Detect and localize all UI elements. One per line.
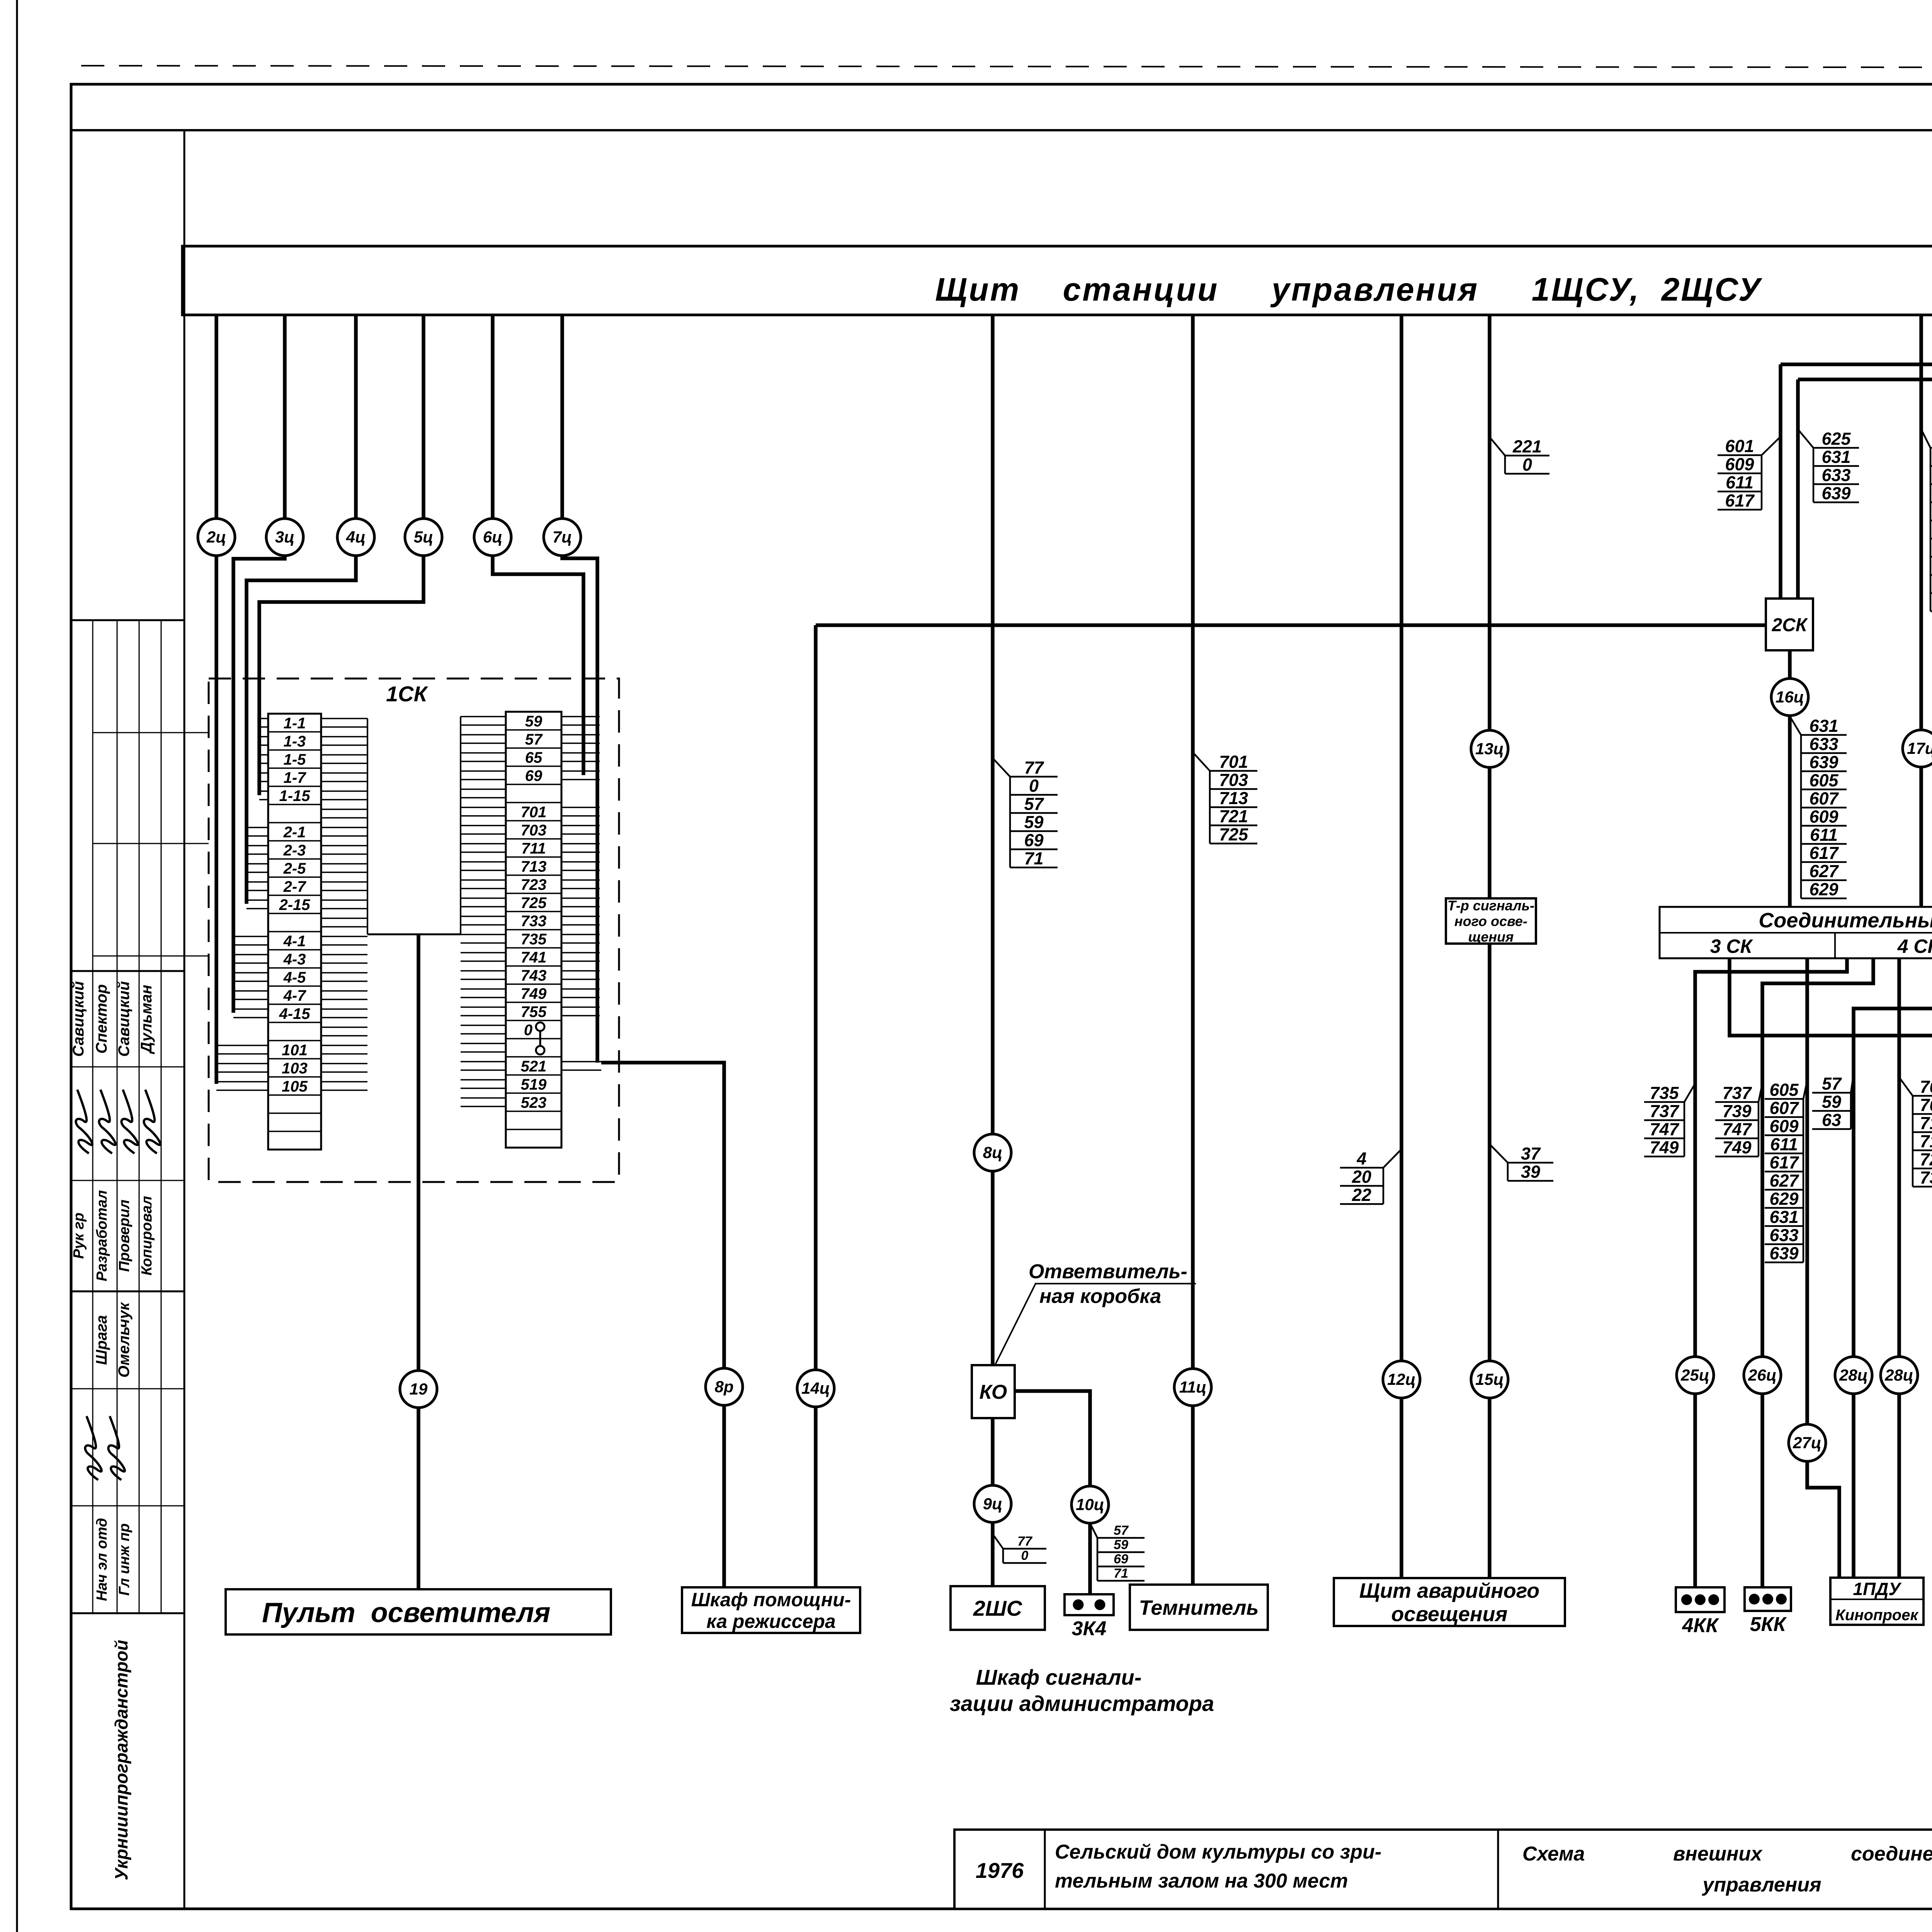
- cable circle 14ц: [797, 1370, 834, 1407]
- svg-text:1-3: 1-3: [284, 733, 306, 750]
- wire 28ц second: [1897, 958, 1901, 1578]
- svg-text:4КК: 4КК: [1682, 1614, 1719, 1637]
- svg-text:Шкаф сигнали-: Шкаф сигнали-: [976, 1665, 1142, 1689]
- cable circle 10ц: [1071, 1486, 1109, 1523]
- stamp column divider v3: [139, 620, 140, 1613]
- svg-text:105: 105: [282, 1078, 308, 1095]
- svg-text:1-15: 1-15: [279, 787, 310, 804]
- svg-text:Савицкий: Савицкий: [70, 981, 87, 1057]
- stamp signature 4: [144, 1090, 160, 1153]
- svg-text:77: 77: [1017, 1534, 1033, 1549]
- svg-text:59: 59: [1114, 1537, 1128, 1552]
- svg-text:735: 735: [1650, 1083, 1679, 1103]
- svg-text:713: 713: [1920, 1113, 1932, 1133]
- svg-text:4-3: 4-3: [283, 951, 306, 968]
- svg-text:749: 749: [521, 985, 547, 1002]
- svg-text:617: 617: [1769, 1153, 1799, 1172]
- svg-text:Спектор: Спектор: [93, 984, 110, 1054]
- wire 14ц: [814, 625, 818, 1587]
- svg-text:731: 731: [1920, 1168, 1932, 1187]
- box 1ПДУ кинопроекционная: [1830, 1578, 1923, 1625]
- left strip terminal plates: [216, 719, 268, 1090]
- stamp row rule b: [93, 843, 209, 844]
- cable circle 12ц: [1383, 1361, 1420, 1398]
- svg-text:617: 617: [1809, 843, 1839, 863]
- sheet top edge (dashed scan line): [81, 66, 1932, 68]
- svg-text:609: 609: [1769, 1116, 1798, 1136]
- svg-text:26ц: 26ц: [1748, 1366, 1777, 1384]
- svg-text:739: 739: [1722, 1101, 1751, 1121]
- wire list at 17ц: [1921, 429, 1932, 612]
- svg-text:8ц: 8ц: [983, 1143, 1003, 1162]
- svg-text:13ц: 13ц: [1475, 740, 1504, 758]
- svg-text:711: 711: [521, 840, 546, 857]
- wire 4ц: [247, 315, 356, 904]
- svg-text:737: 737: [1650, 1101, 1679, 1121]
- svg-text:725: 725: [1219, 825, 1248, 844]
- terminal strip 1СК right: [506, 712, 561, 1148]
- box Т-р сигнального освещения: [1446, 898, 1536, 945]
- stamp signature 1: [76, 1090, 92, 1153]
- wire list at 9ц: [993, 1534, 1046, 1563]
- svg-text:721: 721: [1219, 806, 1248, 826]
- svg-text:14ц: 14ц: [801, 1379, 830, 1397]
- svg-text:607: 607: [1769, 1098, 1799, 1118]
- svg-text:705: 705: [1920, 1095, 1932, 1115]
- cable circle 27ц: [1789, 1424, 1826, 1461]
- stamp column divider v1: [92, 620, 94, 1613]
- svg-text:65: 65: [525, 749, 543, 766]
- svg-text:741: 741: [521, 949, 547, 966]
- cable circle 16ц: [1771, 679, 1808, 716]
- svg-text:2-7: 2-7: [283, 878, 307, 895]
- svg-text:Щит станции управления: Щит станции управления 1ЩСУ, 2ЩСУ: [935, 271, 1763, 308]
- svg-text:639: 639: [1809, 752, 1838, 772]
- wire list at 10ц: [1090, 1523, 1145, 1581]
- wire 6ц: [493, 315, 583, 775]
- svg-text:управления: управления: [1701, 1874, 1821, 1896]
- svg-text:тельным залом на 300 мест: тельным залом на 300 мест: [1055, 1870, 1348, 1892]
- svg-text:737: 737: [1722, 1083, 1752, 1103]
- svg-text:Т-р сигналь-: Т-р сигналь-: [1447, 898, 1534, 913]
- svg-text:703: 703: [521, 822, 547, 839]
- wire list at 12ц: [1340, 1149, 1401, 1205]
- wire to lighting console: [417, 934, 420, 1589]
- svg-text:71: 71: [1024, 849, 1043, 868]
- svg-text:4-5: 4-5: [283, 969, 306, 986]
- svg-text:631: 631: [1821, 447, 1850, 467]
- svg-text:103: 103: [282, 1060, 308, 1077]
- svg-text:11ц: 11ц: [1179, 1378, 1207, 1396]
- wire 13ц: [1488, 315, 1492, 898]
- cable circle 6ц: [474, 519, 511, 556]
- stamp column divider v2: [117, 620, 118, 1613]
- stamp signature 6: [108, 1416, 125, 1480]
- svg-text:519: 519: [521, 1076, 547, 1093]
- svg-text:69: 69: [1114, 1552, 1128, 1566]
- wire list at 8ц: [993, 758, 1058, 868]
- svg-text:4 СК: 4 СК: [1897, 935, 1932, 957]
- svg-text:Пульт осветителя: Пульт осветителя: [262, 1597, 551, 1628]
- svg-text:27ц: 27ц: [1793, 1434, 1821, 1452]
- svg-text:221: 221: [1512, 437, 1542, 456]
- svg-text:1СК: 1СК: [386, 682, 429, 706]
- cable circle 15ц: [1471, 1361, 1508, 1398]
- svg-text:723: 723: [521, 876, 547, 893]
- wire 2СК feed A: [1779, 364, 1782, 599]
- stamp row rule d: [71, 1066, 184, 1068]
- connector 4КК: [1676, 1587, 1725, 1637]
- svg-text:5ц: 5ц: [414, 528, 434, 546]
- svg-text:523: 523: [521, 1094, 547, 1111]
- wire 12ц: [1400, 315, 1403, 1578]
- svg-text:37: 37: [1521, 1144, 1541, 1163]
- stamp row rule h: [71, 1505, 184, 1507]
- outer left sheet edge: [16, 0, 18, 1932]
- svg-text:Шрага: Шрага: [93, 1315, 110, 1365]
- cable circle 11ц: [1174, 1369, 1211, 1406]
- wire 10ц: [1015, 1391, 1090, 1594]
- svg-text:639: 639: [1821, 483, 1850, 503]
- svg-text:1976: 1976: [976, 1858, 1024, 1883]
- svg-text:22: 22: [1352, 1185, 1371, 1205]
- svg-text:4: 4: [1356, 1149, 1366, 1168]
- svg-text:627: 627: [1769, 1171, 1799, 1190]
- svg-text:Соединительные коробки: Соединительные коробки: [1759, 909, 1932, 932]
- svg-text:ного осве-: ного осве-: [1454, 913, 1527, 929]
- stamp column divider v4: [161, 620, 162, 1613]
- svg-text:629: 629: [1809, 879, 1838, 899]
- cable circle 9ц: [974, 1485, 1011, 1522]
- svg-text:611: 611: [1770, 1134, 1798, 1154]
- box Щит аварийного освещения: [1334, 1578, 1565, 1626]
- svg-text:747: 747: [1722, 1119, 1752, 1139]
- svg-text:зации администратора: зации администратора: [950, 1691, 1214, 1716]
- stamp names block top rule: [71, 970, 184, 972]
- svg-text:Проверил: Проверил: [116, 1200, 133, 1272]
- wire list at 27ц: [1765, 1080, 1807, 1263]
- cable circle 25ц: [1677, 1357, 1714, 1394]
- svg-text:4-1: 4-1: [283, 933, 306, 950]
- svg-text:59: 59: [1822, 1092, 1841, 1112]
- strip interconnect wire: [367, 934, 461, 935]
- box Пульт осветителя: [226, 1589, 611, 1634]
- svg-text:703: 703: [1219, 770, 1248, 790]
- svg-text:755: 755: [521, 1003, 547, 1020]
- svg-text:7ц: 7ц: [553, 528, 572, 546]
- svg-text:39: 39: [1521, 1162, 1540, 1182]
- cable circle 2ц: [198, 519, 235, 556]
- svg-text:725: 725: [521, 895, 547, 912]
- svg-text:633: 633: [1769, 1225, 1798, 1245]
- left strip right bus: [321, 719, 367, 1090]
- svg-text:Сельский дом культуры со зри-: Сельский дом культуры со зри-: [1055, 1841, 1381, 1863]
- svg-text:59: 59: [1024, 812, 1043, 832]
- stamp row rule c: [93, 956, 209, 957]
- svg-text:20: 20: [1352, 1167, 1371, 1187]
- frame top inner rule: [71, 129, 1932, 131]
- svg-text:3 СК: 3 СК: [1710, 935, 1753, 957]
- svg-text:57: 57: [1114, 1523, 1129, 1538]
- svg-text:12ц: 12ц: [1387, 1370, 1416, 1388]
- svg-text:соединений: соединений: [1851, 1843, 1932, 1865]
- svg-text:4ц: 4ц: [346, 528, 366, 546]
- svg-text:17ц: 17ц: [1907, 739, 1932, 757]
- svg-text:16ц: 16ц: [1776, 688, 1804, 706]
- stamp signature 3: [121, 1090, 138, 1153]
- stamp row rule a: [93, 732, 209, 733]
- right strip left bus: [461, 717, 506, 1107]
- svg-text:601: 601: [1725, 436, 1754, 456]
- wire 27ц: [1807, 958, 1839, 1578]
- svg-text:0: 0: [1522, 455, 1532, 474]
- svg-text:8р: 8р: [714, 1378, 733, 1396]
- junction box 1СК dashed outline: [209, 679, 619, 1182]
- svg-text:28ц: 28ц: [1839, 1366, 1868, 1384]
- svg-text:735: 735: [521, 931, 547, 948]
- wire 26ц: [1762, 958, 1873, 1587]
- svg-text:9ц: 9ц: [983, 1495, 1003, 1513]
- wire 9ц: [991, 1418, 995, 1586]
- svg-text:3К4: 3К4: [1072, 1617, 1107, 1640]
- cable circle 3ц: [266, 519, 303, 556]
- svg-text:2СК: 2СК: [1772, 615, 1808, 635]
- svg-text:77: 77: [1024, 758, 1044, 777]
- svg-text:57: 57: [525, 731, 543, 748]
- svg-text:627: 627: [1809, 861, 1839, 881]
- connector 5КК: [1745, 1587, 1791, 1636]
- svg-text:25ц: 25ц: [1680, 1366, 1709, 1384]
- svg-text:701: 701: [521, 804, 547, 821]
- svg-text:Разработал: Разработал: [94, 1190, 110, 1281]
- svg-text:749: 749: [1722, 1138, 1751, 1157]
- cable circle 19: [400, 1371, 437, 1408]
- svg-text:Темнитель: Темнитель: [1139, 1596, 1259, 1619]
- stamp signature 5: [85, 1416, 102, 1480]
- wire list at 11ц: [1193, 752, 1257, 844]
- wire 16ц: [1788, 650, 1792, 907]
- box 2СК: [1766, 599, 1813, 650]
- svg-text:КО: КО: [980, 1381, 1007, 1403]
- svg-text:605: 605: [1769, 1080, 1799, 1100]
- svg-text:633: 633: [1821, 465, 1850, 485]
- wire 8р: [601, 1063, 724, 1587]
- leader ответвительная коробка: [995, 1284, 1196, 1365]
- svg-text:629: 629: [1769, 1189, 1798, 1209]
- svg-text:1ПДУ: 1ПДУ: [1853, 1579, 1902, 1599]
- svg-text:0: 0: [1029, 776, 1039, 796]
- wire list at 28ц-a: [1812, 1074, 1854, 1130]
- stamp signature 2: [99, 1090, 116, 1153]
- stamp column right edge: [184, 130, 185, 1909]
- svg-text:ная коробка: ная коробка: [1039, 1285, 1161, 1308]
- wire list at 25ц: [1644, 1083, 1695, 1157]
- wire 11ц: [1191, 315, 1195, 1585]
- svg-text:Щит аварийного: Щит аварийного: [1359, 1579, 1539, 1602]
- wire 14ц horizontal run: [816, 623, 1766, 627]
- svg-text:2-1: 2-1: [283, 824, 306, 841]
- svg-text:631: 631: [1809, 716, 1838, 736]
- svg-text:Омельчук: Омельчук: [116, 1302, 133, 1378]
- svg-text:713: 713: [521, 858, 547, 875]
- wire 19ц horizontal run: [1798, 379, 1932, 729]
- svg-text:4-7: 4-7: [283, 987, 307, 1004]
- svg-text:69: 69: [525, 767, 543, 784]
- svg-text:Гл инж пр: Гл инж пр: [116, 1523, 133, 1595]
- svg-text:2ШС: 2ШС: [973, 1596, 1023, 1621]
- svg-text:611: 611: [1810, 825, 1838, 845]
- stamp table top rule: [72, 619, 184, 621]
- cable circle 7ц: [544, 519, 581, 556]
- svg-text:749: 749: [1650, 1138, 1679, 1157]
- stamp row rule e: [71, 1180, 184, 1181]
- svg-text:3ц: 3ц: [275, 528, 295, 546]
- stamp row rule f: [71, 1291, 184, 1293]
- svg-text:2-5: 2-5: [283, 860, 306, 877]
- svg-text:щения: щения: [1468, 929, 1514, 945]
- svg-text:633: 633: [1809, 734, 1838, 754]
- svg-text:4-15: 4-15: [279, 1005, 310, 1022]
- svg-text:631: 631: [1769, 1207, 1798, 1227]
- svg-text:625: 625: [1821, 429, 1851, 449]
- cable circle 8ц: [974, 1134, 1011, 1171]
- connection boxes band 3СК 4СК 5СК: [1660, 907, 1932, 958]
- svg-text:Кинопроек: Кинопроек: [1835, 1607, 1918, 1624]
- svg-text:609: 609: [1725, 454, 1754, 474]
- svg-text:освещения: освещения: [1391, 1603, 1508, 1626]
- svg-text:1-5: 1-5: [284, 751, 306, 768]
- svg-text:69: 69: [1024, 830, 1043, 850]
- svg-text:71: 71: [1114, 1566, 1128, 1581]
- svg-text:0: 0: [1021, 1548, 1029, 1563]
- title block: [954, 1830, 1932, 1909]
- svg-text:Дульман: Дульман: [138, 985, 155, 1054]
- svg-text:Савицкий: Савицкий: [116, 981, 133, 1057]
- svg-text:617: 617: [1725, 491, 1755, 510]
- svg-text:725: 725: [1920, 1150, 1932, 1169]
- box КО: [972, 1365, 1015, 1418]
- wire 5ц: [259, 315, 423, 795]
- cable circle 4ц: [337, 519, 374, 556]
- wire list at 28ц-b: [1899, 1077, 1932, 1187]
- wire 3ц: [233, 315, 285, 1013]
- svg-text:743: 743: [521, 967, 547, 984]
- svg-text:1-1: 1-1: [284, 715, 306, 732]
- svg-text:59: 59: [525, 713, 543, 730]
- wire 32ц: [1730, 958, 1932, 1577]
- svg-text:5КК: 5КК: [1750, 1613, 1787, 1636]
- svg-text:Схема: Схема: [1522, 1843, 1585, 1865]
- stamp row rule g: [71, 1388, 184, 1389]
- svg-text:733: 733: [521, 913, 547, 930]
- cable circle 17ц: [1903, 730, 1932, 767]
- svg-text:1-7: 1-7: [284, 769, 307, 786]
- cable circle 8р: [706, 1368, 743, 1405]
- svg-text:101: 101: [282, 1042, 308, 1059]
- svg-text:2-15: 2-15: [279, 896, 310, 913]
- svg-text:19: 19: [410, 1380, 428, 1398]
- svg-text:607: 607: [1809, 789, 1839, 808]
- svg-text:ка режиссера: ка режиссера: [706, 1611, 835, 1632]
- wire 20ц horizontal run: [1781, 364, 1932, 731]
- svg-text:28ц: 28ц: [1884, 1366, 1913, 1384]
- right strip right plates: [561, 717, 601, 1070]
- box Темнитель: [1130, 1585, 1268, 1630]
- svg-text:609: 609: [1809, 807, 1838, 827]
- svg-text:521: 521: [521, 1058, 547, 1075]
- svg-text:57: 57: [1024, 794, 1044, 814]
- cable circle 5ц: [405, 519, 442, 556]
- svg-text:Нач эл отд: Нач эл отд: [94, 1518, 110, 1601]
- svg-text:719: 719: [1920, 1131, 1932, 1151]
- wire 2ц: [214, 315, 218, 1084]
- svg-text:Рук гр: Рук гр: [71, 1213, 87, 1259]
- svg-text:Шкаф помощни-: Шкаф помощни-: [691, 1589, 851, 1611]
- stamp org block rule: [71, 1612, 184, 1614]
- box Шкаф помощника режиссера: [682, 1587, 860, 1633]
- svg-text:15ц: 15ц: [1475, 1370, 1504, 1388]
- wire list at 13ц: [1490, 437, 1549, 474]
- wire 28ц first: [1854, 958, 1932, 1578]
- svg-text:Ответвитель-: Ответвитель-: [1029, 1260, 1187, 1283]
- wire list at 26ц: [1715, 1083, 1762, 1157]
- svg-text:701: 701: [1219, 752, 1248, 772]
- wire 2СК feed B: [1796, 379, 1800, 599]
- cable circle 26ц: [1744, 1357, 1781, 1394]
- cable circle 28ц: [1835, 1357, 1872, 1394]
- svg-text:605: 605: [1809, 770, 1838, 790]
- svg-text:внешних: внешних: [1673, 1843, 1763, 1865]
- wire list at 15ц: [1490, 1144, 1553, 1182]
- svg-text:2-3: 2-3: [283, 842, 306, 859]
- svg-text:Копировал: Копировал: [139, 1196, 155, 1276]
- svg-text:639: 639: [1769, 1243, 1798, 1263]
- connector 3К4: [1065, 1594, 1114, 1640]
- wire 7ц: [562, 315, 597, 1063]
- wire 8ц: [991, 315, 995, 1365]
- svg-text:63: 63: [1822, 1110, 1841, 1130]
- cable circle 13ц: [1471, 730, 1508, 767]
- svg-text:611: 611: [1726, 473, 1753, 492]
- svg-text:0: 0: [524, 1022, 532, 1039]
- wire 15ц: [1488, 944, 1492, 1578]
- box 2ШС: [951, 1586, 1045, 1630]
- wire 17ц: [1919, 315, 1923, 907]
- cable circle 28ц: [1881, 1357, 1918, 1394]
- terminal strip 1СК left: [268, 714, 321, 1150]
- wire 25ц: [1695, 958, 1847, 1587]
- svg-text:747: 747: [1650, 1119, 1679, 1139]
- wire list at 16ц: [1790, 716, 1847, 899]
- wire list at 2СК-A: [1718, 436, 1781, 510]
- control station panel band 1ЩСУ 2ЩСУ: [182, 246, 1932, 315]
- svg-text:6ц: 6ц: [483, 528, 503, 546]
- svg-text:703: 703: [1920, 1077, 1932, 1097]
- svg-text:2ц: 2ц: [206, 528, 226, 546]
- svg-text:57: 57: [1822, 1074, 1842, 1094]
- wire list at 2СК-B: [1798, 429, 1859, 503]
- svg-text:713: 713: [1219, 788, 1248, 808]
- svg-text:10ц: 10ц: [1076, 1495, 1104, 1514]
- svg-text:Укрнииипрогражданстрой: Укрнииипрогражданстрой: [111, 1640, 131, 1880]
